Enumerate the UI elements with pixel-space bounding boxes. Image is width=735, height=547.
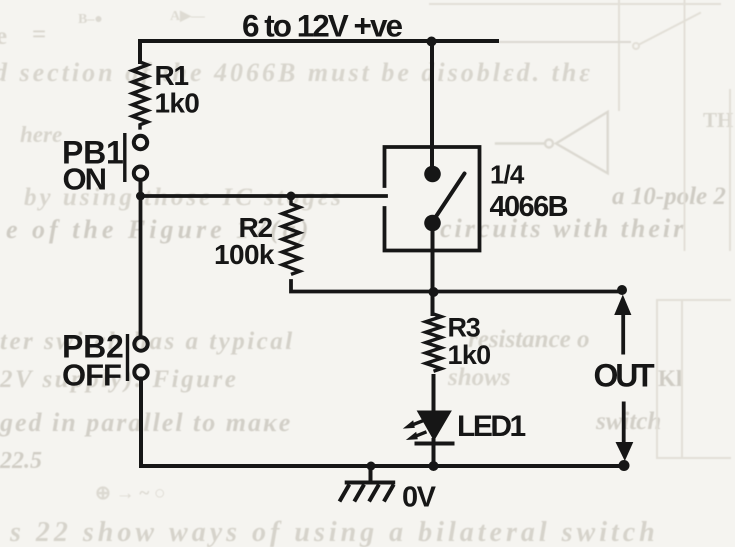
wire: +ve supply rail (140, 41, 497, 62)
svg-text:a 10-pole 2: a 10-pole 2 (612, 183, 726, 210)
svg-text:B–●: B–● (78, 12, 103, 27)
LED LED1 (403, 411, 453, 444)
node: OUT lower terminal (619, 460, 630, 471)
svg-text:0V: 0V (402, 482, 437, 514)
svg-text:1/4: 1/4 (490, 160, 525, 190)
pushbutton PB1 (125, 133, 147, 196)
svg-text:Kl: Kl (658, 366, 682, 391)
svg-text:⊕ → ~ ○: ⊕ → ~ ○ (95, 483, 166, 504)
svg-text:=: = (32, 21, 46, 48)
svg-text:R3: R3 (448, 313, 481, 343)
svg-text:ged in parallel to maκe: ged in parallel to maκe (0, 408, 292, 437)
resistor R3 (426, 314, 442, 371)
wire: 0V rail (141, 379, 624, 467)
svg-text:1k0: 1k0 (155, 88, 200, 119)
svg-text:22.5: 22.5 (0, 448, 42, 474)
svg-text:d sectiοn οf the 4066Β must be: d sectiοn οf the 4066Β must be disοblεd.… (0, 58, 593, 87)
wire: junction down to PB2 (139, 196, 143, 337)
svg-text:6 to 12V +ve: 6 to 12V +ve (242, 8, 402, 44)
svg-text:here: here (20, 122, 62, 147)
svg-text:e: e (0, 23, 7, 50)
svg-text:A▶—: A▶— (170, 9, 206, 24)
node: supply rail junction (427, 37, 437, 47)
node: OUT upper terminal (617, 285, 627, 295)
node: LED / 0V junction (429, 461, 439, 471)
wire: R3 to LED1 (432, 376, 436, 412)
arrow: OUT upper (points up) (614, 295, 631, 355)
arrow: OUT lower (points down) (616, 402, 634, 462)
svg-text:switch: switch (595, 408, 661, 435)
node: PB1 / R2 / PB2 junction (136, 192, 145, 201)
resistor R1 (132, 62, 147, 130)
svg-text:TH: TH (703, 108, 733, 132)
wire: rail to 4066B switch input (430, 42, 434, 174)
svg-text:OUT: OUT (594, 358, 656, 394)
svg-text:4066B: 4066B (490, 191, 568, 223)
analog switch U1 pole contacts (424, 166, 441, 183)
svg-text:ON: ON (63, 162, 106, 197)
svg-text:R1: R1 (155, 60, 189, 91)
ground: 0V symbol (340, 466, 396, 502)
node: switch output / R3 junction (429, 287, 439, 297)
node: ground junction (367, 462, 376, 471)
wire: R2 bottom to OUT (upper) (291, 281, 622, 292)
wire: switch output down to R3 (431, 223, 435, 314)
analog switch U1 arm (433, 174, 465, 222)
svg-text:1k0: 1k0 (448, 340, 491, 370)
wire: LED1 to 0V rail (432, 440, 436, 466)
pushbutton PB2 (128, 334, 148, 381)
wire: control line from junction to 4066B (141, 194, 387, 198)
analog switch U1 (1/4 4066B) box (385, 147, 480, 251)
node: R2 top junction (287, 192, 296, 201)
svg-text:100k: 100k (214, 239, 275, 270)
resistor R2 (282, 196, 299, 274)
svg-text:OFF: OFF (62, 358, 121, 393)
svg-text:s 22 show ways of using a bila: s 22 show ways of using a bilateral swit… (9, 517, 659, 547)
svg-text:LED1: LED1 (457, 410, 526, 443)
